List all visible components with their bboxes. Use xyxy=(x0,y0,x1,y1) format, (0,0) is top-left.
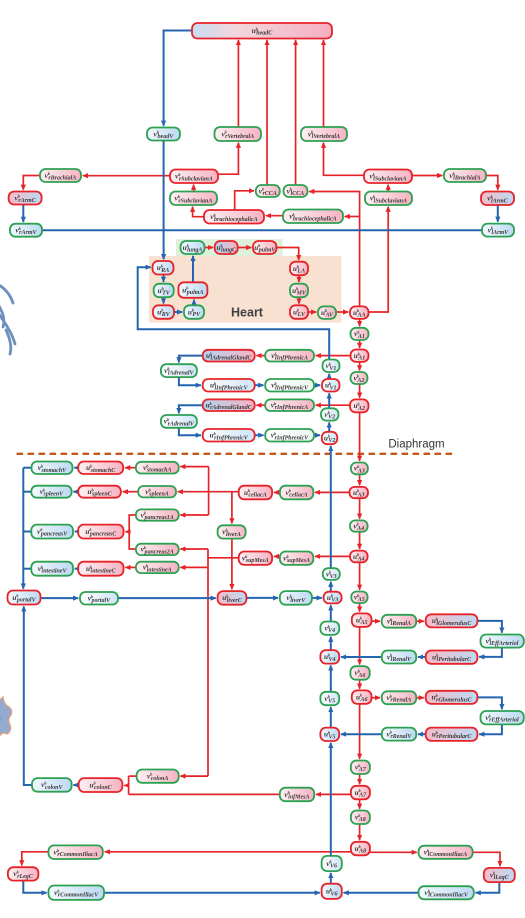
node v_celiacA xyxy=(280,486,313,500)
wire AA-to-vA1 xyxy=(359,319,361,326)
wire brachiocephalicA-to-rCCA xyxy=(235,191,254,210)
node v_rCommonIliacV xyxy=(49,886,105,900)
node v_rInfPhrenicV xyxy=(265,429,314,442)
node v_lCommonIliacA xyxy=(419,846,473,859)
node v_intestineV xyxy=(31,562,73,576)
wire liverV-to-uV3 xyxy=(312,597,322,599)
wire vV6-to-uV5 xyxy=(330,743,332,856)
node v_A1 xyxy=(351,328,369,340)
node v_infMesA xyxy=(280,788,314,802)
node u_pulmV xyxy=(253,241,277,254)
wire rVertebralA-to-headC xyxy=(237,40,239,127)
wire AV-to-AA xyxy=(336,311,348,313)
wire lEffArteriol-to-lPeritubularC xyxy=(479,648,502,657)
wire uV1-to-vV1 xyxy=(328,374,330,379)
node v_A3 xyxy=(351,463,368,475)
wire vrInfPhrenicV-to-uV2 xyxy=(314,434,320,436)
node u_lungA xyxy=(181,241,205,254)
node v_lBrachialA xyxy=(444,169,486,182)
node v_portalV xyxy=(80,592,118,605)
wire uV2-to-vV2 xyxy=(328,422,330,431)
node u_LA xyxy=(290,262,308,276)
wire uV6-to-vV6 xyxy=(330,873,332,884)
node v_headV xyxy=(147,128,180,141)
wire uA1-to-vA2 xyxy=(359,362,361,371)
node v_spleenV xyxy=(31,486,71,498)
node u_stomachC xyxy=(78,462,123,475)
wire headC-to-headV xyxy=(164,31,192,126)
node u_headC xyxy=(192,23,332,39)
node u_V2 xyxy=(322,432,338,444)
wire celiac-branch-vertical xyxy=(208,467,210,515)
node u_A2 xyxy=(350,399,369,412)
node u_A4 xyxy=(350,551,368,563)
wire lPeritubularC-to-lRenalV xyxy=(418,656,426,658)
node u_lungC xyxy=(215,241,238,254)
node v_lCommonIliacV xyxy=(419,886,474,899)
wire brachiocephalicA-to-rSubclavianA2 xyxy=(193,207,204,217)
wire spleenV-to-portal xyxy=(23,491,31,493)
node v_A8 xyxy=(351,811,370,825)
wire rCommonIliacA-to-rLegC xyxy=(22,852,49,866)
wire stomachC-to-stomachV xyxy=(74,467,78,469)
wire ulInfPhrenicV-to-vlInfPhrenicV xyxy=(255,384,264,386)
wire pancreas2A-to-pancreasC xyxy=(129,532,136,549)
node v_rEffArteriol xyxy=(481,711,524,724)
node v_liverA xyxy=(218,525,246,538)
wire pancreasV-to-portal xyxy=(23,531,31,533)
wire celiac-to-pancreas1A xyxy=(180,514,208,516)
node u_V4 xyxy=(320,650,339,664)
wire lSubclavianA-to-lBrachialA xyxy=(412,175,442,177)
node v_colonV xyxy=(32,778,72,792)
wire colonC-to-colonV xyxy=(73,784,78,786)
node u_A1 xyxy=(351,350,369,362)
wire uA3-to-vCeliacA xyxy=(315,491,350,493)
node u_V1 xyxy=(322,379,340,392)
wire uV5-to-vV5 xyxy=(330,707,332,728)
wire colonV-to-portalV xyxy=(24,606,32,785)
wire TV-to-RV xyxy=(163,297,165,303)
wire lSubclavianA2-to-lSubclavianA1 xyxy=(387,185,389,192)
wire uA5-to-vA6 xyxy=(359,627,361,665)
node v_intestineA xyxy=(136,562,179,574)
wire LV-to-AV xyxy=(308,311,316,313)
node v_lArmC xyxy=(481,192,514,206)
node u_rAdrenalGlandC xyxy=(203,399,255,411)
wire pancreas1A-to-pancreasC xyxy=(129,515,136,532)
wire vA8-to-uA8 xyxy=(359,824,361,840)
node u_A5 xyxy=(352,613,372,627)
node u_rGlomerulusC xyxy=(426,691,478,704)
wire RV-to-PV xyxy=(174,311,182,313)
wire vA5-to-uA5 xyxy=(359,603,361,612)
node v_supMesA_g xyxy=(280,552,313,565)
node v_rCCA xyxy=(256,185,280,197)
wire uCeliacA-to-spleenA xyxy=(178,491,239,493)
node v_lRenalV xyxy=(382,651,416,664)
node v_V1 xyxy=(323,360,340,373)
wire celiac-to-stomachA xyxy=(180,466,208,468)
node u_AV xyxy=(318,306,336,319)
node u_A6 xyxy=(352,690,372,704)
node v_colonA xyxy=(137,770,179,783)
wire uA4-to-supMesA xyxy=(315,555,350,557)
wire uA6-to-vA7 xyxy=(359,704,361,759)
wire stomachV-to-portal xyxy=(23,467,31,469)
wire supMes-to-pancreas2A xyxy=(180,548,208,550)
wire aorta-to-brachiocephalicA xyxy=(345,216,360,218)
wire uA7-to-vA8 xyxy=(359,799,361,809)
node v_lSubclavianA2 xyxy=(365,192,412,206)
node u_LV xyxy=(290,305,308,319)
wire vPortalV-to-liverC xyxy=(118,597,216,599)
wire lLegC-to-lCommonIliacV xyxy=(476,882,500,893)
node u_lPeritubularC xyxy=(426,651,478,664)
wire vCeliacA-to-uCeliacA xyxy=(274,491,280,493)
node u_lAdrenalGlandC xyxy=(203,350,255,362)
node u_RV xyxy=(153,305,174,319)
node v_lVertebralA xyxy=(301,127,347,141)
node u_AA xyxy=(350,306,369,319)
wire lRenalA-to-lGlomerulusC xyxy=(416,620,424,622)
wire uA6-to-rRenalA xyxy=(372,697,381,699)
wire lungA-to-lungC xyxy=(205,247,214,249)
wire vV5-to-uV4 xyxy=(330,665,332,691)
wire vA6-to-uA6 xyxy=(359,680,361,689)
node v_V3 xyxy=(323,568,340,580)
wire celiac-to-liverA xyxy=(231,492,233,524)
wire uA3-to-vA4 xyxy=(359,498,361,519)
wire RA-to-TV xyxy=(163,275,165,282)
node v_liverV xyxy=(280,591,312,605)
wire rAdrenalGlandC-to-rAdrenalV xyxy=(179,405,203,413)
wire liverA-to-liverC xyxy=(231,539,233,590)
node v_V2 xyxy=(321,408,339,420)
wire junction-to-colonC xyxy=(124,784,128,786)
wire pulmA-to-lungA xyxy=(192,256,194,282)
wire rPeritubularC-to-rRenalV xyxy=(418,733,426,735)
node v_rInfPhrenicA xyxy=(265,399,314,411)
watermark splat bottom-left xyxy=(0,697,12,742)
diaphragm dashed line xyxy=(17,453,454,455)
node v_brachiocephalicA_L xyxy=(204,210,264,224)
wire lCCA-to-headC xyxy=(295,40,297,185)
wire lArmC-to-lArmV xyxy=(497,205,499,222)
node v_rCommonIliacA xyxy=(49,845,103,859)
wire vV2-to-uV1 xyxy=(328,393,330,408)
node u_portalV xyxy=(8,591,41,605)
node v_A2 xyxy=(351,372,368,384)
wire headV-to-RA xyxy=(163,141,165,260)
wire vV3-to-uV2 xyxy=(330,446,332,568)
wire rInfPhrenicA-to-rAdrenalGlandC xyxy=(256,404,265,406)
wire vV1-to-RA xyxy=(138,267,330,359)
node v_A6 xyxy=(350,666,369,680)
wire uA5-to-lRenalA xyxy=(372,620,381,622)
node v_rSubclavianA2 xyxy=(170,192,217,206)
node v_A4 xyxy=(350,520,368,532)
node u_A3 xyxy=(350,487,369,499)
wire uV4-to-vV4 xyxy=(330,637,332,650)
wire lBrachialA-to-lArmC xyxy=(486,176,498,190)
node u_celiacA xyxy=(239,486,272,500)
wire supMes-to-intestineA xyxy=(180,566,208,568)
wire rBrachialA-to-rArmC xyxy=(23,176,40,190)
wire stomachA-to-stomachC xyxy=(125,467,136,469)
wire uAA-to-lSubclavianA2 xyxy=(369,207,389,312)
wire lungC-to-pulmV xyxy=(238,247,252,249)
wire supMes-branch-vertical xyxy=(207,549,209,776)
wire spleenA-to-spleenC xyxy=(123,491,138,493)
watermark vessel-branches top-left xyxy=(0,283,15,354)
svg-text:Diaphragm: Diaphragm xyxy=(388,439,444,451)
wire branch-to-colonA xyxy=(180,775,208,777)
node v_V5 xyxy=(320,692,339,705)
node v_lSubclavianA1 xyxy=(364,170,412,184)
node v_lInfPhrenicA xyxy=(265,350,314,362)
wire uA8-to-lCommonIliacA xyxy=(370,851,417,853)
wire rArmC-to-rArmV xyxy=(22,205,24,222)
node v_lCCA xyxy=(284,185,308,197)
wire brachiocephalicA-R-to-L xyxy=(266,215,283,217)
wire rGlomerulusC-to-rEffArteriol xyxy=(477,697,502,709)
wire rSubclavianA-to-rVertebralA xyxy=(218,143,238,175)
wire rEffArteriol-to-rPeritubularC xyxy=(479,724,502,734)
wire vA4-to-uA4 xyxy=(359,532,361,549)
wire vlInfPhrenicV-to-uV1 xyxy=(314,384,320,386)
node u_rPeritubularC xyxy=(426,728,478,741)
node v_brachiocephalicA_R xyxy=(283,210,343,224)
node v_stomachV xyxy=(32,462,73,475)
node u_PV xyxy=(184,305,204,319)
wire urInfPhrenicV-to-vrInfPhrenicV xyxy=(255,434,264,436)
wire vA3-to-uA3 xyxy=(359,474,361,485)
wire infMesA-left xyxy=(129,793,280,795)
wire pulmV-to-LA xyxy=(277,248,299,261)
wire uA2-to-rInfPhrenicA xyxy=(316,404,350,406)
node v_rArmC xyxy=(9,192,42,205)
wire rAdrenalV-to-rInfPhrenicV xyxy=(179,428,201,435)
node v_rLegC xyxy=(8,867,39,880)
node u_colonC xyxy=(79,778,123,792)
wire supMesA-to-branch xyxy=(208,557,239,559)
wire portal-vertical xyxy=(22,468,24,589)
wire lAdrenalGlandC-to-lAdrenalV xyxy=(179,356,203,363)
wire liverC-to-liverV xyxy=(246,597,278,599)
node v_stomachA xyxy=(136,462,179,474)
node v_spleenA xyxy=(138,486,176,498)
node v_lRenalA xyxy=(382,615,416,628)
node u_A7 xyxy=(351,786,370,800)
node v_lLegC xyxy=(484,868,515,882)
wire arm-vein-line xyxy=(42,229,482,231)
node u_rInfPhrenicV xyxy=(203,429,255,442)
node u_intestineC xyxy=(78,562,123,576)
wire rSubclavianA-to-rBrachialA xyxy=(83,175,170,177)
node u_TV xyxy=(154,284,174,298)
wire rRenalA-to-rGlomerulusC xyxy=(416,697,424,699)
node v_rVertebralA xyxy=(215,127,262,141)
wire supMesA-g-to-r xyxy=(274,555,280,557)
wire intestineV-to-portal xyxy=(23,568,31,570)
wire uA4-to-vA5 xyxy=(359,562,361,590)
node v_rRenalV xyxy=(382,728,416,741)
node v_rRenalA xyxy=(382,691,416,704)
wire pancreasC-to-pancreasV xyxy=(75,531,78,533)
wire vV4-to-uV3 xyxy=(330,605,332,621)
wire vA1-to-uA1 xyxy=(359,340,361,348)
node v_rBrachialA xyxy=(40,169,81,182)
node v_rArmV xyxy=(10,224,42,237)
wire intestineA-to-intestineC xyxy=(125,566,135,568)
node v_pancreas1A xyxy=(136,509,179,521)
wire lCommonIliacV-to-uV6 xyxy=(344,892,419,894)
wire lAdrenalV-to-lInfPhrenicV xyxy=(179,377,201,385)
node v_lArmV xyxy=(482,224,514,237)
wire rLegC-to-rCommonIliacV xyxy=(23,881,46,893)
svg-text:Heart: Heart xyxy=(231,306,264,320)
node v_V6 xyxy=(322,856,342,871)
node u_spleenC xyxy=(78,486,121,498)
wire uV3-to-vV3 xyxy=(330,582,332,592)
wire lRenalV-to-uV4 xyxy=(341,656,382,658)
wire lSubclavianA-to-lVertebralA xyxy=(324,143,365,176)
wire vA7-to-uA7 xyxy=(359,774,361,784)
node u_MV xyxy=(290,284,308,298)
node v_pancreasV xyxy=(31,525,73,539)
node v_lAdrenalV xyxy=(161,364,197,377)
wire spleenC-to-spleenV xyxy=(73,491,78,493)
wire pancreas-join-to-pancreasC xyxy=(125,531,129,533)
wire lVertebralA-to-headC xyxy=(323,40,325,127)
node v_V4 xyxy=(320,622,339,635)
node u_lInfPhrenicV xyxy=(203,379,255,392)
wire MV-to-LV xyxy=(298,297,300,303)
node v_lInfPhrenicV xyxy=(265,379,314,392)
node u_V6 xyxy=(322,884,342,899)
node v_rSubclavianA1 xyxy=(170,170,218,184)
node u_pancreasC xyxy=(78,525,123,539)
wire rSubclavianA2-to-rSubclavianA1 xyxy=(193,185,195,192)
wire uA1-to-lInfPhrenicA xyxy=(316,355,351,357)
wire uA2-to-vA3 xyxy=(359,412,361,461)
node v_rAdrenalV xyxy=(161,415,197,428)
node u_V3 xyxy=(324,592,342,604)
wire LA-to-MV xyxy=(298,275,300,282)
node u_A8 xyxy=(351,842,370,856)
wire uA8-to-rCommonIliacA xyxy=(105,851,351,853)
node u_lGlomerulusC xyxy=(426,614,478,627)
node v_A5 xyxy=(351,592,367,604)
wire uPortalV-to-vPortalV xyxy=(41,597,79,599)
wire rCCA-to-headC xyxy=(266,40,268,185)
wire colonA-left xyxy=(129,775,137,777)
wire colon-junction-vertical xyxy=(128,776,130,794)
wire rCommonIliacV-to-uV6 xyxy=(104,892,320,894)
wire lInfPhrenicA-to-lAdrenalGlandC xyxy=(256,355,265,357)
wire lCommonIliacA-to-lLegC xyxy=(473,852,500,866)
node v_A7 xyxy=(351,761,370,775)
node v_lEffArteriol xyxy=(481,635,524,648)
wire rRenalV-to-uV5 xyxy=(341,733,382,735)
wire PV-to-pulmA xyxy=(193,300,195,306)
wire uAA-to-lCCA xyxy=(309,192,359,307)
wire lGlomerulusC-to-lEffArteriol xyxy=(477,621,502,633)
lungs region background xyxy=(176,239,283,257)
node v_pancreas2A xyxy=(136,544,179,556)
heart region background xyxy=(149,256,342,323)
wire intestineC-to-intestineV xyxy=(75,568,78,570)
wire vA2-to-uA2 xyxy=(359,384,361,398)
wire uA7-to-infMesA xyxy=(316,793,351,795)
node u_liverC xyxy=(218,591,247,605)
node u_RA xyxy=(153,261,174,275)
node v_supMesA_r xyxy=(239,552,272,565)
node u_V5 xyxy=(320,728,339,741)
node u_pulmA xyxy=(178,282,207,298)
